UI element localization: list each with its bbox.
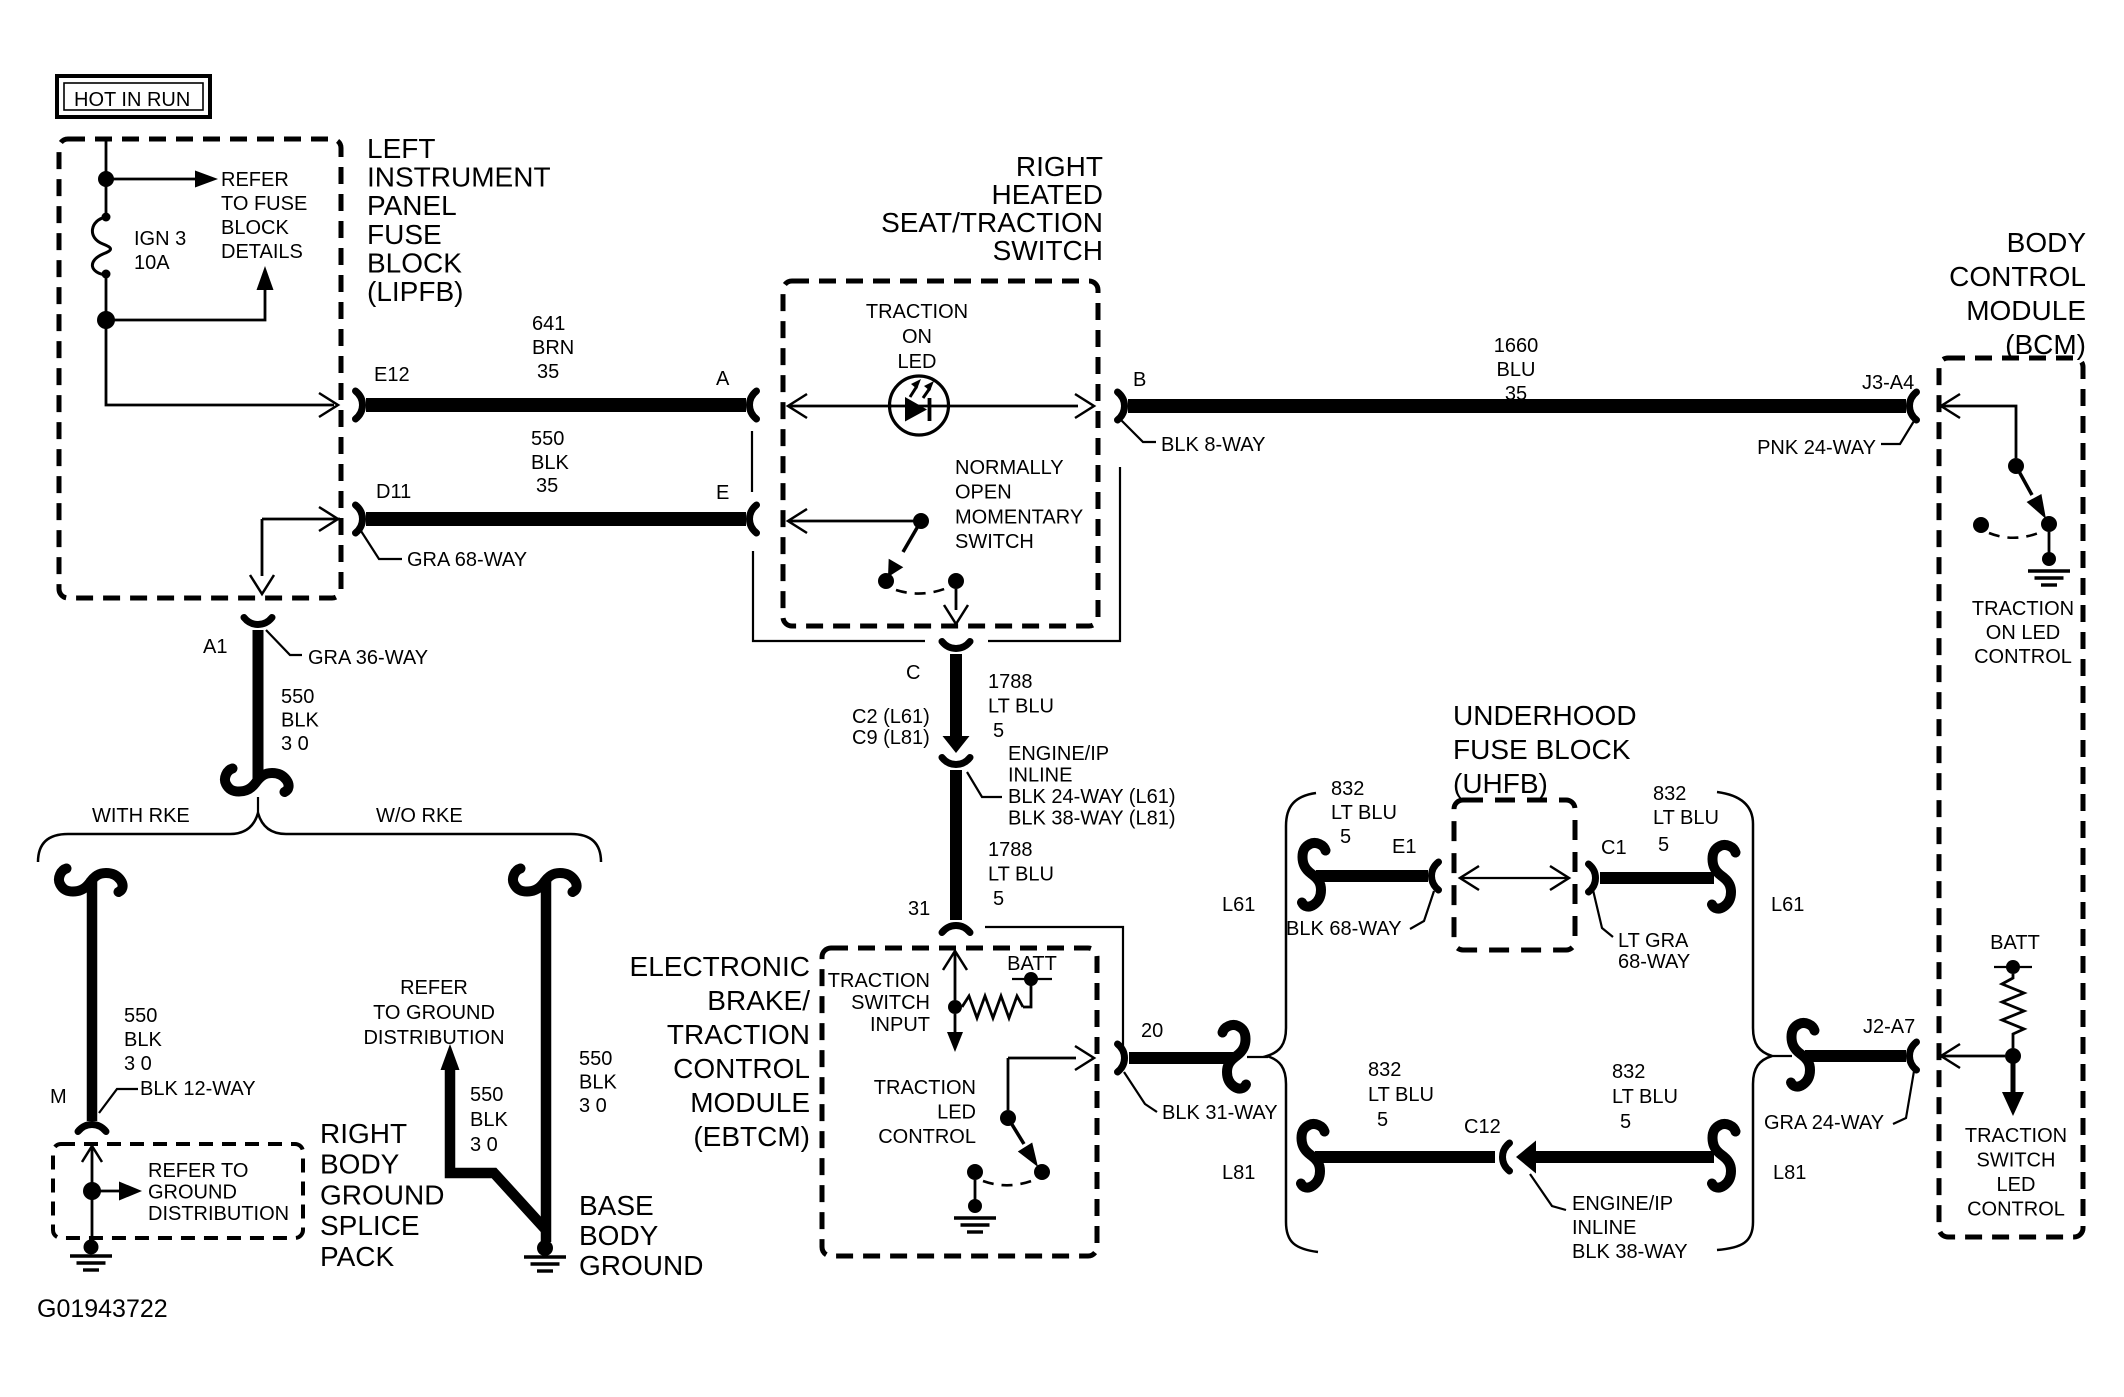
svg-text:L61: L61 xyxy=(1771,894,1804,916)
connector at switch pin E xyxy=(750,505,757,533)
base body ground node xyxy=(537,1240,553,1256)
wire 641 BRN 35 xyxy=(366,398,746,412)
wire 832 LT BLU 5 from C1 xyxy=(1600,872,1714,884)
svg-text:5: 5 xyxy=(1340,826,1351,848)
wire label 832 LT BLU 5 (E1) xyxy=(1331,778,1397,824)
svg-text:68-WAY: 68-WAY xyxy=(1618,951,1690,973)
connector face line between A and E xyxy=(751,431,753,492)
arrow into pin D11 xyxy=(319,507,338,531)
arrow to REFER TO GROUND DISTRIBUTION xyxy=(119,1182,142,1201)
svg-text:INLINE: INLINE xyxy=(1008,765,1072,787)
svg-text:CONTROL: CONTROL xyxy=(673,1053,810,1084)
arrow down out of LIPFB to A1 xyxy=(250,575,274,594)
wire to refer-to-fuse-block arrow xyxy=(106,178,196,181)
svg-text:CONTROL: CONTROL xyxy=(1949,261,2086,292)
svg-text:1660: 1660 xyxy=(1494,335,1539,357)
wire 550 BLK 3 0 from A1 xyxy=(253,630,264,780)
connector at switch pin A xyxy=(750,391,757,419)
svg-text:SWITCH: SWITCH xyxy=(993,235,1103,266)
svg-text:TRACTION: TRACTION xyxy=(1965,1125,2067,1147)
svg-text:LT BLU: LT BLU xyxy=(988,864,1054,886)
wire label 832 LT BLU 5 (C12 right) xyxy=(1612,1061,1678,1108)
svg-text:LT BLU: LT BLU xyxy=(1368,1084,1434,1106)
svg-text:PACK: PACK xyxy=(320,1241,394,1272)
svg-text:BLK: BLK xyxy=(281,710,319,732)
svg-text:W/O RKE: W/O RKE xyxy=(376,805,463,827)
connector at pin C (BLK 8-WAY) xyxy=(942,642,970,649)
svg-text:NORMALLY: NORMALLY xyxy=(955,457,1064,479)
BCM led switch left contact xyxy=(1973,517,1989,533)
led control right contact xyxy=(1034,1164,1050,1180)
connector at switch pin B (BLK 8-WAY) xyxy=(1118,392,1125,420)
pins C2 (L61) / C9 (L81) xyxy=(852,706,930,749)
svg-text:L61: L61 xyxy=(1222,894,1255,916)
svg-text:E: E xyxy=(716,482,729,504)
svg-text:DISTRIBUTION: DISTRIBUTION xyxy=(363,1027,504,1049)
svg-text:RIGHT: RIGHT xyxy=(1016,151,1103,182)
wire 832 LT BLU 5 to E1 xyxy=(1316,870,1428,882)
leader BLK 68-WAY xyxy=(1410,891,1434,929)
switch travel arc xyxy=(896,588,947,594)
label ENGINE/IP INLINE BLK 38-WAY xyxy=(1572,1193,1688,1263)
LED D1 traction on xyxy=(890,376,949,435)
svg-text:M: M xyxy=(50,1086,67,1108)
leader GRA 24-WAY xyxy=(1893,1071,1914,1124)
left option brace L61/L81 xyxy=(1267,793,1318,1252)
svg-text:RIGHT: RIGHT xyxy=(320,1118,407,1149)
label ENGINE/IP INLINE BLK 24-WAY (L61) BLK 38-WAY (L81) xyxy=(1008,743,1175,830)
svg-text:SWITCH: SWITCH xyxy=(1977,1150,2056,1172)
arrow to pin E1 inside UHFB xyxy=(1460,866,1479,890)
svg-text:TRACTION: TRACTION xyxy=(866,301,968,323)
wire 550 BLK 3 0 (W/O RKE) xyxy=(541,878,552,1242)
arrow up into M connector xyxy=(82,1146,102,1162)
svg-text:HEATED: HEATED xyxy=(992,179,1104,210)
svg-text:REFER: REFER xyxy=(221,169,289,191)
svg-text:B: B xyxy=(1133,369,1146,391)
wire 1660 BLU 35 xyxy=(1128,399,1906,413)
wire label 550 BLK 3 0 (main) xyxy=(579,1048,617,1117)
underhood fuse block box xyxy=(1454,800,1575,950)
svg-text:550: 550 xyxy=(470,1084,503,1106)
label TRACTION SWITCH LED CONTROL xyxy=(1965,1125,2067,1221)
splice connector E1 row xyxy=(1302,843,1326,907)
svg-text:TRACTION: TRACTION xyxy=(667,1019,810,1050)
svg-text:5: 5 xyxy=(993,888,1004,910)
arrow to REFER TO FUSE BLOCK DETAILS xyxy=(195,171,218,188)
svg-text:GRA 68-WAY: GRA 68-WAY xyxy=(407,549,527,571)
label LT GRA 68-WAY xyxy=(1618,930,1690,973)
arrow to pin 20 out of EBTCM xyxy=(1075,1046,1094,1070)
wire 832 LT BLU 5 to J2-A7 xyxy=(1805,1050,1906,1062)
connector M (BLK 12-WAY) xyxy=(78,1125,106,1132)
svg-text:A: A xyxy=(716,368,730,390)
leader GRA 36-WAY xyxy=(266,630,302,655)
wire label 550 BLK 3 0 xyxy=(124,1005,162,1075)
wire pin E to switch pivot xyxy=(790,520,921,523)
label REFER TO FUSE BLOCK DETAILS xyxy=(221,169,307,263)
label TRACTION ON LED xyxy=(866,301,968,373)
resistor R2 in BCM xyxy=(2002,974,2024,1048)
junction traction switch led control xyxy=(2005,1048,2021,1064)
svg-text:BODY: BODY xyxy=(579,1220,659,1251)
wire 1788 LT BLU 5 (lower) xyxy=(950,770,962,920)
svg-text:GROUND: GROUND xyxy=(148,1181,237,1203)
wire to ground splice xyxy=(91,1148,94,1240)
leader BLK 31-WAY xyxy=(1124,1072,1157,1112)
arrow to pin B out of switch xyxy=(1075,394,1094,418)
svg-text:FUSE: FUSE xyxy=(367,219,442,250)
link splice to left brace xyxy=(1247,1056,1268,1058)
led control switch arm xyxy=(1008,1118,1024,1144)
svg-text:BRAKE/: BRAKE/ xyxy=(707,985,810,1016)
value label IGN 3 10A xyxy=(134,228,186,274)
led control travel arc xyxy=(983,1180,1034,1185)
svg-text:641: 641 xyxy=(532,313,565,335)
left instrument panel fuse block (LIPFB) box xyxy=(59,139,341,598)
arrow into BCM at J3-A4 xyxy=(1941,394,1960,418)
svg-text:GROUND: GROUND xyxy=(320,1179,444,1210)
svg-text:550: 550 xyxy=(281,686,314,708)
svg-text:REFER TO: REFER TO xyxy=(148,1160,248,1182)
BCM led switch arm xyxy=(2016,466,2032,495)
svg-text:ON LED: ON LED xyxy=(1986,622,2060,644)
wire label 832 LT BLU 5 (C12 left) xyxy=(1368,1059,1434,1106)
resistor R1 pull-up xyxy=(962,996,1023,1018)
splice connector J2-A7 row xyxy=(1791,1023,1815,1087)
svg-text:LEFT: LEFT xyxy=(367,133,435,164)
svg-text:L81: L81 xyxy=(1222,1162,1255,1184)
svg-text:BLK: BLK xyxy=(579,1072,617,1094)
svg-text:E12: E12 xyxy=(374,364,410,386)
splice connector top of W/O RKE branch xyxy=(513,869,577,893)
svg-text:BLK 12-WAY: BLK 12-WAY xyxy=(140,1078,256,1100)
svg-text:LT BLU: LT BLU xyxy=(1653,807,1719,829)
wire to refer arrow xyxy=(92,1190,119,1193)
ground symbol base body ground xyxy=(524,1257,566,1271)
svg-text:BLK 24-WAY (L61): BLK 24-WAY (L61) xyxy=(1008,786,1175,808)
wire 832 LT BLU 5 from pin 20 xyxy=(1129,1052,1233,1064)
svg-text:C1: C1 xyxy=(1601,837,1627,859)
svg-text:BRN: BRN xyxy=(532,337,574,359)
wire 550 BLK 35 xyxy=(366,512,746,526)
svg-text:550: 550 xyxy=(531,428,564,450)
svg-text:BLU: BLU xyxy=(1497,359,1536,381)
svg-text:LT BLU: LT BLU xyxy=(1612,1086,1678,1108)
arrow into engine/ip inline connector xyxy=(943,736,970,753)
label BODY CONTROL MODULE (BCM) xyxy=(1949,227,2086,360)
svg-text:BATT: BATT xyxy=(1007,953,1057,975)
arrow into BCM at J2-A7 xyxy=(1941,1044,1960,1068)
BCM led switch right contact xyxy=(2041,516,2057,532)
svg-text:LT GRA: LT GRA xyxy=(1618,930,1689,952)
svg-text:35: 35 xyxy=(537,361,559,383)
svg-text:PANEL: PANEL xyxy=(367,190,457,221)
svg-text:BLK: BLK xyxy=(531,452,569,474)
svg-text:LED: LED xyxy=(937,1102,976,1124)
svg-text:5: 5 xyxy=(1620,1111,1631,1133)
wire label 550 BLK 3 0 xyxy=(281,686,319,755)
wire J2-A7 to resistor node xyxy=(1943,1055,2005,1058)
junction in ground distribution box xyxy=(83,1182,101,1200)
svg-text:BODY: BODY xyxy=(320,1149,400,1180)
svg-text:GROUND: GROUND xyxy=(579,1250,703,1281)
svg-text:1788: 1788 xyxy=(988,671,1033,693)
svg-text:832: 832 xyxy=(1653,783,1686,805)
svg-text:INLINE: INLINE xyxy=(1572,1217,1636,1239)
splice connector at bottom of A1 wire xyxy=(225,769,289,793)
svg-text:BASE: BASE xyxy=(579,1190,654,1221)
wire inside LIPFB from D11 to A1 xyxy=(262,519,340,576)
label RIGHT BODY GROUND SPLICE PACK xyxy=(320,1118,444,1272)
link right brace to J2-A7 splice xyxy=(1773,1055,1792,1057)
led control left contact xyxy=(967,1164,983,1180)
label RIGHT HEATED SEAT/TRACTION SWITCH xyxy=(881,151,1103,266)
splice connector top of WITH RKE branch xyxy=(59,869,123,893)
wire 832 LT BLU 5 to C12 xyxy=(1315,1151,1495,1163)
junction node below fuse xyxy=(97,311,115,329)
svg-text:CONTROL: CONTROL xyxy=(878,1126,976,1148)
ground inside EBTCM xyxy=(954,1218,996,1232)
svg-text:5: 5 xyxy=(1658,834,1669,856)
label TRACTION LED CONTROL xyxy=(874,1077,976,1148)
led control switch pivot xyxy=(1000,1110,1016,1126)
BCM ground node xyxy=(2042,552,2056,566)
arrow to pin A inside switch xyxy=(788,394,807,418)
svg-text:BLK 68-WAY: BLK 68-WAY xyxy=(1286,918,1402,940)
wire resistor to BATT xyxy=(1023,981,1031,1007)
svg-text:BLK 8-WAY: BLK 8-WAY xyxy=(1161,434,1265,456)
arrow to pin E inside switch xyxy=(788,509,807,533)
arrow out of LIPFB to pin E12 xyxy=(319,393,338,417)
link wire to option brace xyxy=(257,797,259,813)
switch pivot contact xyxy=(913,513,929,529)
svg-text:550: 550 xyxy=(124,1005,157,1027)
EBTCM box xyxy=(822,948,1097,1256)
HOT IN RUN power label box xyxy=(57,76,210,117)
svg-text:REFER: REFER xyxy=(400,977,468,999)
svg-text:BATT: BATT xyxy=(1990,932,2040,954)
wire to traction switch input arrow xyxy=(954,1014,957,1032)
connector at D11 (GRA 68-WAY) xyxy=(356,505,363,533)
wire label 1788 LT BLU 5 (lower) xyxy=(988,839,1054,886)
leader PNK 24-WAY xyxy=(1881,421,1914,444)
svg-text:G01943722: G01943722 xyxy=(37,1295,168,1323)
svg-text:BLK: BLK xyxy=(470,1109,508,1131)
right heated seat/traction switch box xyxy=(783,281,1098,626)
label BASE BODY GROUND xyxy=(579,1190,703,1281)
wire LED to pin B xyxy=(890,405,1078,408)
wire to details arrow xyxy=(106,290,265,320)
label NORMALLY OPEN MOMENTARY SWITCH xyxy=(955,457,1083,553)
svg-text:PNK 24-WAY: PNK 24-WAY xyxy=(1757,437,1876,459)
svg-text:WITH RKE: WITH RKE xyxy=(92,805,190,827)
junction traction switch input xyxy=(948,1000,962,1014)
wire label 641 BRN 35 xyxy=(532,313,574,359)
fuse IGN 3 10A xyxy=(92,213,110,279)
svg-text:SWITCH: SWITCH xyxy=(955,531,1034,553)
leader GRA 68-WAY xyxy=(361,531,402,559)
splice connector wire 20 to option brace xyxy=(1223,1025,1247,1089)
svg-text:MOMENTARY: MOMENTARY xyxy=(955,506,1083,528)
svg-text:SWITCH: SWITCH xyxy=(851,992,930,1014)
svg-text:LED: LED xyxy=(898,351,937,373)
svg-text:MODULE: MODULE xyxy=(1966,295,2086,326)
svg-text:3 0: 3 0 xyxy=(281,733,309,755)
traction switch input wire xyxy=(954,953,957,1000)
svg-text:20: 20 xyxy=(1141,1020,1163,1042)
svg-text:BLK 38-WAY (L81): BLK 38-WAY (L81) xyxy=(1008,808,1175,830)
ground splice node xyxy=(84,1240,99,1255)
svg-text:BLOCK: BLOCK xyxy=(221,217,289,239)
wire 832 LT BLU 5 from inline to splice xyxy=(1534,1151,1714,1163)
connector C12 female xyxy=(1503,1143,1510,1171)
body control module box xyxy=(1939,358,2083,1237)
svg-text:832: 832 xyxy=(1331,778,1364,800)
svg-text:3 0: 3 0 xyxy=(579,1095,607,1117)
svg-text:TRACTION: TRACTION xyxy=(874,1077,976,1099)
svg-text:BODY: BODY xyxy=(2007,227,2087,258)
wire label 550 BLK 35 xyxy=(531,428,569,474)
svg-text:INPUT: INPUT xyxy=(870,1014,930,1036)
wire to BCM ground xyxy=(2048,532,2051,553)
wire to pin C xyxy=(955,589,958,610)
svg-text:LT BLU: LT BLU xyxy=(1331,802,1397,824)
svg-text:BLK 31-WAY: BLK 31-WAY xyxy=(1162,1102,1278,1124)
wire from HOT IN RUN through fuse IGN 3 to pin E12 xyxy=(106,139,334,405)
svg-text:(UHFB): (UHFB) xyxy=(1453,768,1548,799)
svg-text:J3-A4: J3-A4 xyxy=(1862,372,1914,394)
arrow down traction switch led control xyxy=(2011,1062,2016,1094)
svg-text:SPLICE: SPLICE xyxy=(320,1210,420,1241)
svg-text:UNDERHOOD: UNDERHOOD xyxy=(1453,700,1637,731)
wire label 832 LT BLU 5 (C1) xyxy=(1653,783,1719,829)
wire to EBTCM ground xyxy=(974,1180,977,1200)
connector at EBTCM pin 31 (BLK 31-WAY) xyxy=(942,926,970,933)
right option brace L61/L81 xyxy=(1717,792,1772,1250)
svg-text:HOT IN RUN: HOT IN RUN xyxy=(74,89,190,111)
svg-text:J2-A7: J2-A7 xyxy=(1863,1016,1915,1038)
wire 550 BLK 3 0 (WITH RKE) xyxy=(87,878,98,1121)
connector A1 (GRA 36-WAY) xyxy=(244,618,272,625)
wire label 1660 BLU 35 xyxy=(1494,335,1539,405)
svg-text:LT BLU: LT BLU xyxy=(988,696,1054,718)
svg-text:D11: D11 xyxy=(376,481,411,503)
svg-text:OPEN: OPEN xyxy=(955,482,1012,504)
svg-text:5: 5 xyxy=(993,720,1004,742)
svg-text:MODULE: MODULE xyxy=(690,1087,810,1118)
svg-text:L81: L81 xyxy=(1773,1162,1806,1184)
connector at UHFB pin C1 (LT GRA 68-WAY) xyxy=(1589,864,1596,892)
BCM switch travel arc xyxy=(1989,532,2041,538)
EBTCM ground node xyxy=(968,1199,982,1213)
traction led control wire xyxy=(1008,1058,1076,1110)
ground inside BCM xyxy=(2028,571,2070,585)
arrow up to pin 31 inside EBTCM xyxy=(943,951,967,970)
label TRACTION SWITCH INPUT xyxy=(828,970,930,1036)
wire through UHFB xyxy=(1462,877,1567,879)
engine/ip inline male connector BLK 38-WAY xyxy=(1516,1141,1536,1174)
svg-text:(EBTCM): (EBTCM) xyxy=(693,1121,810,1152)
svg-text:ELECTRONIC: ELECTRONIC xyxy=(630,951,810,982)
connector at BCM pin J2-A7 (GRA 24-WAY) xyxy=(1910,1042,1917,1070)
svg-text:35: 35 xyxy=(536,475,558,497)
svg-text:550: 550 xyxy=(579,1048,612,1070)
svg-text:TRACTION: TRACTION xyxy=(828,970,930,992)
svg-text:TRACTION: TRACTION xyxy=(1972,598,2074,620)
label TRACTION ON LED CONTROL xyxy=(1972,598,2074,668)
label ELECTRONIC BRAKE/TRACTION CONTROL MODULE (EBTCM) xyxy=(630,951,811,1152)
svg-text:IGN 3: IGN 3 xyxy=(134,228,186,250)
wire 1788 LT BLU 5 (upper) xyxy=(950,654,962,736)
wire branch to ground distribution (550 BLK 3 0) xyxy=(450,1068,546,1230)
leader engine/ip inline 38-way xyxy=(1530,1174,1566,1210)
label LEFT INSTRUMENT PANEL FUSE BLOCK (LIPFB) xyxy=(367,133,551,307)
leader BLK 12-WAY xyxy=(99,1089,138,1113)
svg-text:ON: ON xyxy=(902,326,932,348)
svg-text:(BCM): (BCM) xyxy=(2005,329,2086,360)
svg-text:10A: 10A xyxy=(134,252,170,274)
leader LT GRA 68-WAY xyxy=(1593,890,1613,937)
label UNDERHOOD FUSE BLOCK (UHFB) xyxy=(1453,700,1637,799)
wire label 550 BLK 3 0 (branch) xyxy=(470,1084,508,1156)
arrow to pin C1 inside UHFB xyxy=(1550,866,1569,890)
svg-text:BLK: BLK xyxy=(124,1029,162,1051)
BATT node in EBTCM xyxy=(1024,972,1038,986)
svg-text:C12: C12 xyxy=(1464,1116,1501,1138)
svg-text:C: C xyxy=(906,662,920,684)
label REFER TO GROUND DISTRIBUTION xyxy=(148,1160,289,1225)
svg-text:31: 31 xyxy=(908,898,930,920)
switch SW1 arm xyxy=(903,521,921,552)
engine/ip inline connector BLK 24-WAY(L61)/38-WAY(L81) xyxy=(942,758,970,765)
svg-text:INSTRUMENT: INSTRUMENT xyxy=(367,162,551,193)
connector at E12 (GRA 68-WAY) xyxy=(356,391,363,419)
connector at BCM pin J3-A4 (PNK 24-WAY) xyxy=(1910,392,1917,420)
svg-text:C2 (L61): C2 (L61) xyxy=(852,706,930,728)
arrow down to pin C xyxy=(944,605,968,624)
svg-text:3 0: 3 0 xyxy=(124,1053,152,1075)
svg-text:832: 832 xyxy=(1368,1059,1401,1081)
switch connector face bracket xyxy=(753,467,1120,641)
BCM led switch pivot xyxy=(2008,458,2024,474)
svg-text:ENGINE/IP: ENGINE/IP xyxy=(1572,1193,1673,1215)
svg-text:(LIPFB): (LIPFB) xyxy=(367,276,463,307)
wire pin A to LED xyxy=(790,405,892,408)
connector at UHFB pin E1 (BLK 68-WAY) xyxy=(1432,862,1439,890)
svg-text:DETAILS: DETAILS xyxy=(221,241,303,263)
svg-text:CONTROL: CONTROL xyxy=(1974,646,2072,668)
svg-text:LED: LED xyxy=(1997,1174,2036,1196)
svg-text:SEAT/TRACTION: SEAT/TRACTION xyxy=(881,207,1103,238)
label REFER TO GROUND DISTRIBUTION (right) xyxy=(363,977,504,1049)
svg-text:GRA 36-WAY: GRA 36-WAY xyxy=(308,647,428,669)
arrow up to DETAILS xyxy=(257,266,274,290)
svg-text:5: 5 xyxy=(1377,1109,1388,1131)
BATT node in BCM xyxy=(2006,960,2020,974)
svg-text:ENGINE/IP: ENGINE/IP xyxy=(1008,743,1109,765)
splice connector C12 row right xyxy=(1712,1124,1736,1188)
svg-text:CONTROL: CONTROL xyxy=(1967,1199,2065,1221)
option brace WITH RKE / W/O RKE xyxy=(38,813,601,862)
svg-text:E1: E1 xyxy=(1392,836,1416,858)
EBTCM connector face bracket xyxy=(985,927,1123,1048)
wire J3-A4 to traction on led switch xyxy=(1943,406,2016,458)
arrow up to REFER TO GROUND DISTRIBUTION xyxy=(441,1044,460,1070)
arrow down traction switch input xyxy=(947,1032,963,1052)
svg-text:3 0: 3 0 xyxy=(470,1134,498,1156)
switch left contact xyxy=(878,573,894,589)
